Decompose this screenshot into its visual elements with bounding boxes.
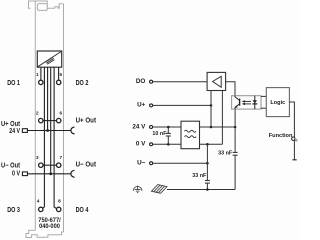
svg-text:2: 2 <box>36 110 39 115</box>
svg-text:DO 3: DO 3 <box>7 207 20 214</box>
svg-text:DO 1: DO 1 <box>7 80 20 87</box>
converter winding lower <box>185 136 197 138</box>
svg-text:0 V: 0 V <box>12 171 20 178</box>
wire LED to logic lower <box>261 107 266 109</box>
terminal 7 <box>57 163 61 167</box>
svg-text:33 nF: 33 nF <box>218 150 233 156</box>
24V power jumper contact female <box>22 129 27 133</box>
driver supply vertical U+ to 24V <box>210 105 212 127</box>
svg-text:Function: Function <box>269 133 293 139</box>
wire D (to terminal 8) <box>54 67 56 208</box>
svg-text:7: 7 <box>60 155 63 160</box>
terminal 6 <box>57 118 61 122</box>
phototransistor <box>235 96 240 109</box>
svg-text:DO 4: DO 4 <box>76 207 89 214</box>
driver ground stub to 0V <box>221 91 223 145</box>
svg-text:0 V: 0 V <box>136 141 146 148</box>
protective earth symbol <box>133 186 142 193</box>
wire DO to driver <box>153 81 208 83</box>
driver triangle <box>213 76 222 87</box>
junction dot 24V / driver supply <box>210 126 213 129</box>
wire 24V right of converter <box>200 126 236 128</box>
svg-text:1: 1 <box>36 72 39 77</box>
svg-text:U+ Out: U+ Out <box>1 121 21 128</box>
function earth T-bar <box>293 159 297 161</box>
capacitor C2 33nF <box>233 127 238 190</box>
0V power jumper contact male <box>71 170 75 177</box>
junction dot 0V / 33nF branch <box>206 143 209 146</box>
wire U- <box>153 162 208 164</box>
24V power jumper rail wire <box>27 130 70 132</box>
terminal 2 <box>39 118 43 122</box>
svg-text:040-000: 040-000 <box>39 223 60 230</box>
capacitor C1 10nF <box>166 127 171 144</box>
junction dot 0V rail / wire C <box>49 172 52 175</box>
terminal DO <box>150 80 153 83</box>
junction dot U+ <box>210 104 213 107</box>
wire B (24V tap) <box>47 67 49 130</box>
junction dot earth bus <box>206 188 209 191</box>
wire optocoupler emitter to 24V <box>234 109 236 127</box>
svg-text:U− Out: U− Out <box>76 162 97 169</box>
terminal U- <box>150 162 153 165</box>
wire logic to function earth <box>289 102 294 160</box>
electronics box with diagonal <box>37 51 61 67</box>
svg-text:5: 5 <box>60 72 63 77</box>
light arrow lower <box>244 103 251 105</box>
wire stub to terminal 1 <box>40 67 42 80</box>
LED diode triangle <box>253 100 257 103</box>
svg-text:U+: U+ <box>137 102 146 109</box>
wire 0V right of converter <box>200 143 223 145</box>
functional earth plate symbol <box>151 185 167 194</box>
0V power jumper contact female <box>22 172 27 176</box>
svg-text:6: 6 <box>60 110 63 115</box>
driver box U1 <box>207 72 226 90</box>
svg-text:U− Out: U− Out <box>1 162 21 169</box>
24V power jumper contact male <box>71 127 75 134</box>
LED vertical wire <box>254 96 256 109</box>
svg-text:33 nF: 33 nF <box>192 173 207 179</box>
capacitor C3 33nF <box>205 144 210 189</box>
svg-text:Logic: Logic <box>270 100 285 106</box>
driver supply stub left <box>210 91 212 106</box>
module housing right edge <box>63 4 65 232</box>
junction dot 24V / 10nF <box>167 126 170 129</box>
junction dot U- <box>206 162 209 165</box>
terminal 24V <box>150 126 153 129</box>
terminal 0V <box>150 143 153 146</box>
function LED indicator <box>292 137 295 140</box>
svg-text:24 V: 24 V <box>132 123 146 130</box>
terminal 5 <box>57 80 61 84</box>
junction dot 24V / optocoupler <box>234 126 237 129</box>
terminal 4 <box>39 207 43 211</box>
svg-text:8: 8 <box>58 199 61 204</box>
wire stub to terminal 5 <box>58 67 60 80</box>
junction dot 0V / 10nF <box>167 143 170 146</box>
module housing left edge <box>34 1 36 230</box>
wire 0V left of converter <box>153 143 181 145</box>
wire driver output to optocoupler <box>226 82 235 96</box>
svg-text:DO: DO <box>136 78 146 85</box>
svg-text:4: 4 <box>37 199 40 204</box>
wire C (0V tap) <box>50 67 52 174</box>
phototransistor emitter arrow <box>235 105 238 107</box>
LED cathode bar <box>252 103 257 105</box>
wire 24V left of converter <box>153 126 181 128</box>
wire A (to terminal 4) <box>43 67 45 208</box>
svg-text:3: 3 <box>36 155 39 160</box>
terminal 1 <box>39 80 43 84</box>
earth bus wire <box>167 189 235 191</box>
light arrow upper <box>244 100 251 102</box>
jumper link terminals 3-7 <box>43 164 57 166</box>
svg-text:U+ Out: U+ Out <box>76 118 97 125</box>
terminal 8 <box>57 207 61 211</box>
terminal U+ <box>150 104 153 107</box>
converter winding upper <box>185 130 197 132</box>
wire LED to logic upper <box>261 95 266 97</box>
module housing bottom foot profile <box>26 230 64 237</box>
DC/DC converter box <box>181 121 200 149</box>
junction dot 24V rail / wire B <box>46 129 49 132</box>
svg-text:DO 2: DO 2 <box>76 80 89 87</box>
wire U+ <box>153 104 211 106</box>
0V power jumper rail wire <box>27 173 70 175</box>
svg-text:10 nF: 10 nF <box>152 131 167 137</box>
module housing top profile <box>29 1 64 10</box>
svg-text:24 V: 24 V <box>9 128 20 135</box>
jumper link terminals 2-6 <box>43 120 57 122</box>
logic box <box>266 88 289 117</box>
terminal 3 <box>39 163 43 167</box>
svg-text:U−: U− <box>137 160 146 167</box>
optocoupler box <box>232 96 261 109</box>
